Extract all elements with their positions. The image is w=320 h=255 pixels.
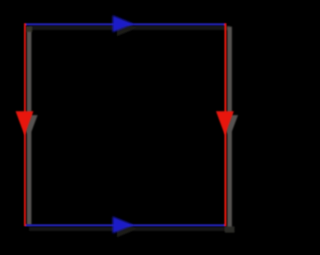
top arrowhead (blue, points right) — [113, 15, 134, 32]
ghost of right arrowhead — [220, 115, 238, 139]
bottom arrowhead (blue, points right) — [113, 217, 134, 234]
main figure — [25, 23, 226, 226]
left arrowhead (red, points down) — [16, 111, 34, 135]
ghost of bottom edge (dark) — [29, 227, 230, 231]
ghost blob at bottom-right corner — [225, 226, 235, 232]
blue arrowheads — [113, 15, 134, 233]
bottom edge a (blue, oriented right) — [25, 224, 226, 226]
right arrowhead (red, points down) — [216, 111, 234, 135]
ghost (motion-trail) layer offset down-right — [20, 19, 238, 237]
ghost of top arrowhead — [117, 19, 138, 36]
ghost of right edge (gray) — [227, 27, 232, 229]
red arrowheads — [16, 111, 234, 135]
ghost of bottom arrowhead — [117, 220, 138, 237]
ghost of left edge (gray) — [27, 27, 32, 226]
top edge a (blue, oriented right) — [25, 23, 226, 25]
ghost of top edge (dark) — [29, 26, 230, 30]
torus identification square diagram — [0, 0, 250, 250]
left edge b (red, oriented down) — [24, 23, 26, 226]
ghost of left arrowhead — [20, 115, 38, 139]
right edge b (red, oriented down) — [224, 23, 226, 226]
ghost blob at top-left corner — [26, 26, 32, 32]
